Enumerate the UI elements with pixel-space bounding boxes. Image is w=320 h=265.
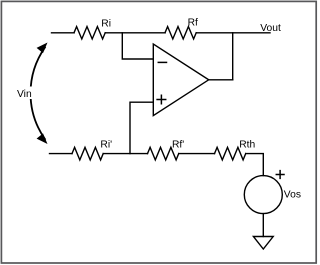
resistor Rth [215,147,246,160]
svg-text:Ri': Ri' [100,139,112,150]
svg-text:Rth: Rth [239,140,255,151]
wire: Rf' to Rth [179,153,215,155]
wire: Rth to Vos source [246,154,264,176]
op-amp U1 [153,44,208,116]
wire: bottom input from Vin terminal to Ri' [50,153,73,155]
Vin arc arrowhead bottom [37,133,48,144]
Vin measurement arc arrow [31,48,45,140]
wire: Ri' to Rf' [103,153,147,155]
op-amp noninverting input marker + [157,95,166,104]
wire: output node up to feedback [232,33,234,80]
ground [253,237,273,250]
resistor Ri' [72,147,103,160]
svg-text:Vin: Vin [17,89,32,100]
wire: summing node down to inverting input [122,33,153,59]
Vin arc arrowhead top [37,43,48,54]
wire: op-amp output to feedback node [209,79,233,81]
resistor Ri [74,27,105,39]
wire: Vos to ground [262,214,264,237]
white gap behind Vin label [15,87,37,100]
wire: noninverting node up to + input [130,102,153,153]
label: Vos polarity + [276,171,284,179]
wire: Rf to Vout terminal [196,32,270,34]
voltage source Vos [244,176,282,214]
wire: Ri to Rf (inverting summing node) [105,32,165,34]
svg-text:Ri: Ri [101,19,111,30]
op-amp inverting input marker - [158,61,166,63]
svg-text:Rf: Rf [188,17,198,28]
wire: top input from Vin terminal to Ri [52,32,75,34]
resistor Rf' [148,147,179,160]
svg-text:Vout: Vout [260,23,281,34]
svg-text:Vos: Vos [284,190,301,201]
svg-text:Rf': Rf' [172,140,184,151]
resistor Rf [165,27,196,39]
